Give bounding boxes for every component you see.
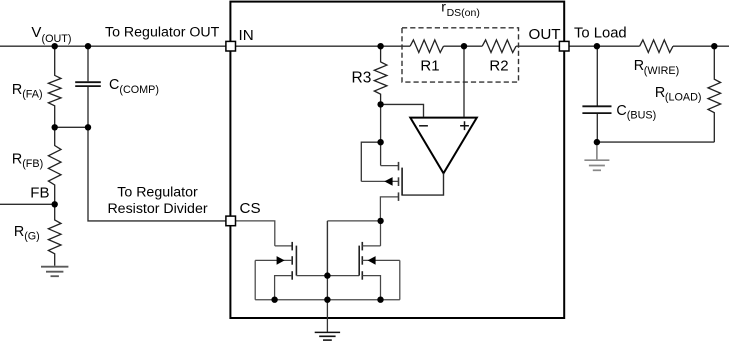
svg-text:(COMP): (COMP): [119, 84, 159, 96]
svg-text:R: R: [634, 58, 644, 74]
svg-text:r: r: [441, 0, 446, 15]
svg-text:Resistor Divider: Resistor Divider: [107, 201, 207, 217]
svg-text:(BUS): (BUS): [627, 110, 656, 122]
svg-text:OUT: OUT: [529, 26, 561, 43]
svg-text:To Regulator OUT: To Regulator OUT: [105, 24, 220, 40]
svg-text:IN: IN: [239, 27, 254, 44]
svg-text:C: C: [109, 77, 119, 93]
svg-text:V: V: [31, 24, 41, 41]
svg-text:R2: R2: [489, 57, 508, 74]
svg-text:CS: CS: [240, 200, 261, 217]
svg-text:FB: FB: [30, 184, 49, 201]
svg-text:R: R: [655, 85, 665, 101]
svg-text:R: R: [12, 82, 22, 98]
svg-text:(OUT): (OUT): [42, 33, 72, 45]
svg-text:R3: R3: [352, 70, 372, 87]
svg-text:R: R: [14, 224, 24, 240]
svg-text:(WIRE): (WIRE): [644, 65, 679, 77]
svg-text:DS(on): DS(on): [447, 7, 480, 19]
svg-text:R1: R1: [420, 57, 439, 74]
svg-text:(FB): (FB): [22, 158, 43, 170]
svg-text:(G): (G): [24, 230, 40, 242]
svg-text:(FA): (FA): [22, 88, 42, 100]
svg-text:To Load: To Load: [574, 25, 627, 41]
svg-text:C: C: [616, 103, 626, 119]
svg-text:(LOAD): (LOAD): [665, 92, 702, 104]
svg-text:To Regulator: To Regulator: [117, 185, 198, 201]
svg-text:R: R: [12, 151, 22, 167]
